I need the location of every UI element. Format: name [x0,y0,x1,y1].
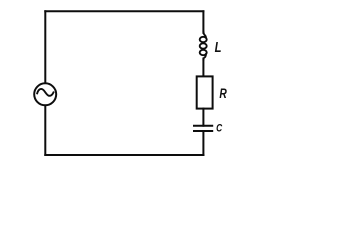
svg-text:R: R [219,85,227,101]
svg-text:L: L [215,39,222,56]
svg-text:C: C [216,122,223,134]
